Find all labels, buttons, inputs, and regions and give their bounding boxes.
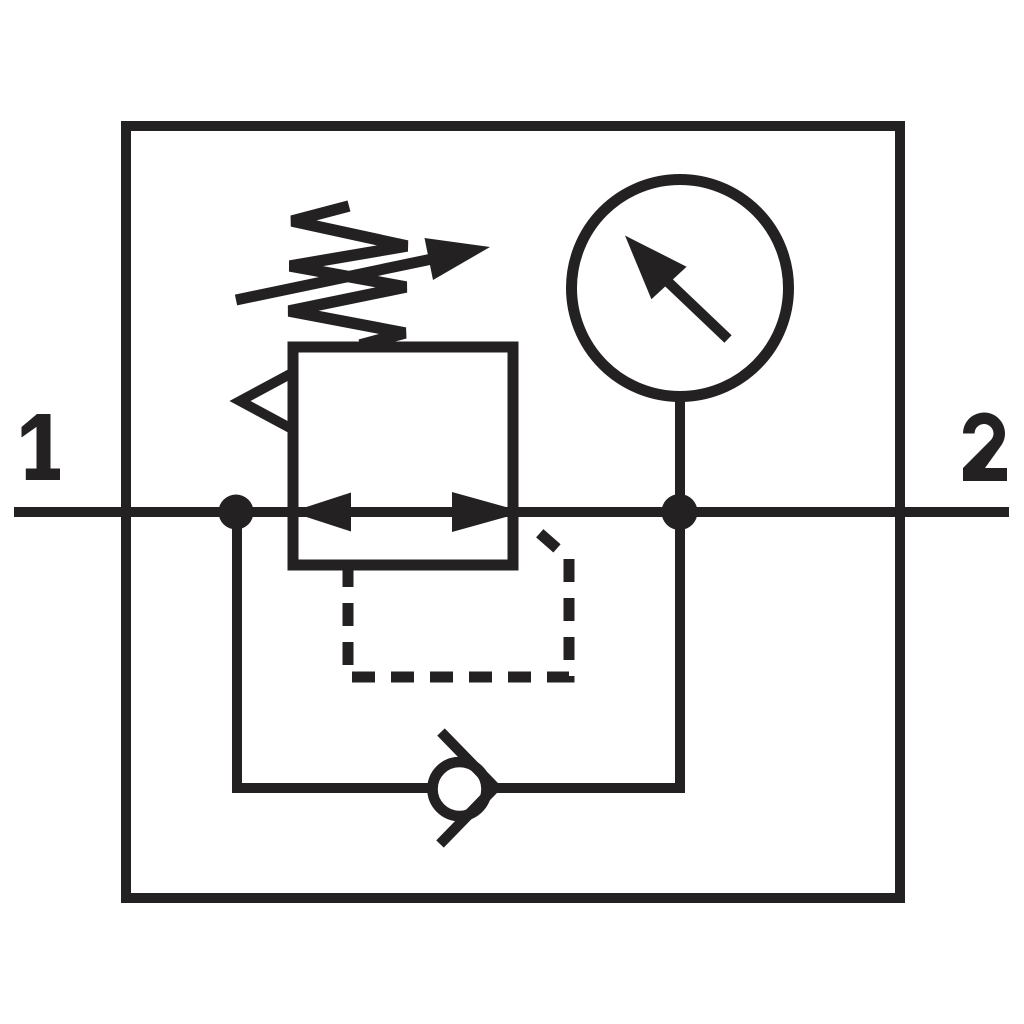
pressure gauge <box>572 180 789 397</box>
gauge needle shaft <box>666 280 728 339</box>
flow arrow left <box>291 493 351 532</box>
node: left junction <box>219 495 254 530</box>
wire: main flow line port 1 to port 2 <box>14 507 1009 517</box>
port label 2 <box>963 413 1007 481</box>
check valve circle <box>433 762 487 816</box>
flow arrow right <box>452 492 524 532</box>
node: right junction <box>662 494 698 530</box>
pilot line (dashed) <box>348 533 569 677</box>
spring (adjustable) <box>289 206 407 345</box>
adjustment arrow shaft <box>236 259 432 300</box>
port label 1 <box>22 414 61 480</box>
regulator valve body <box>293 347 513 565</box>
enclosure box <box>126 126 900 898</box>
check valve seat <box>440 732 495 844</box>
wire: left branch down to bypass <box>237 512 428 788</box>
adjustment arrow head <box>425 238 491 280</box>
gauge needle head <box>625 236 687 300</box>
wire: bypass right and branch up to gauge <box>494 399 680 788</box>
pilot vent triangle <box>240 373 292 429</box>
